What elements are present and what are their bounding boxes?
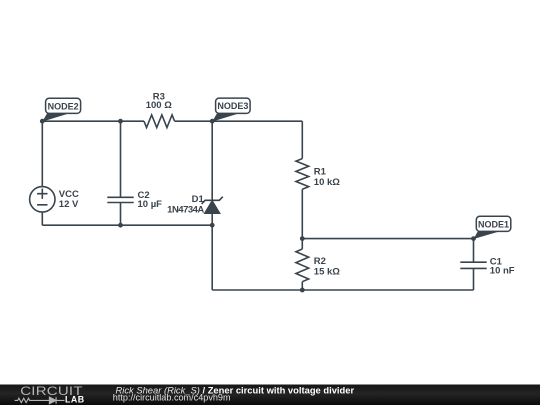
footer bar (0, 385, 540, 405)
wire left: NODE2 corner down to VCC top (41, 121, 43, 186)
svg-text:1N4734A: 1N4734A (167, 205, 204, 216)
footer title text (113, 384, 355, 402)
svg-text:R1: R1 (314, 166, 327, 177)
wire mid: R1/R2 junction to NODE1 corner (302, 238, 473, 240)
junction: NODE3 on top wire (210, 119, 215, 124)
zener diode D1 (202, 197, 223, 214)
capacitor C1 (460, 262, 486, 268)
svg-text:100 Ω: 100 Ω (146, 100, 172, 111)
node flag NODE2 (42, 98, 80, 121)
wire left: VCC bottom to bottom-left corner (41, 212, 43, 225)
resistor R2 (296, 249, 309, 282)
junction: R2 bottom on bottom wire (300, 288, 305, 293)
wire: D1 anode down through junction to bottom wire (211, 213, 213, 290)
wire top: NODE3 junction to top-right corner (212, 120, 302, 122)
svg-text:R2: R2 (314, 256, 326, 267)
voltage source VCC V1 (30, 187, 55, 212)
resistor R3 (144, 115, 175, 128)
svg-text:NODE2: NODE2 (48, 101, 79, 111)
svg-text:LAB: LAB (65, 394, 85, 404)
wire: R2 top lead (301, 239, 303, 249)
wire: C2 top lead (120, 121, 122, 197)
wire top: R3 right lead to NODE3 junction (175, 120, 213, 122)
node flag NODE3 (212, 98, 250, 122)
wire right: top corner down to R1 (301, 121, 303, 158)
svg-text:NODE3: NODE3 (217, 101, 248, 111)
svg-text:D1: D1 (192, 194, 205, 205)
svg-text:NODE1: NODE1 (478, 219, 509, 229)
svg-text:http://circuitlab.com/c4pvh9m: http://circuitlab.com/c4pvh9m (113, 393, 231, 403)
svg-text:12 V: 12 V (59, 199, 79, 210)
junction: C2 bottom (118, 223, 123, 228)
wire bottom-left: VCC to C2 to D1 (42, 224, 212, 226)
CircuitLab logo wordmark (20, 385, 84, 405)
junction: R1/R2 mid node (300, 236, 305, 241)
junction: D1 leg on bottom-left wire (210, 223, 215, 228)
wire: C2 bottom lead (120, 203, 122, 226)
CircuitLab logo resistor-diode icon (15, 397, 65, 404)
node flag NODE1 (474, 216, 511, 239)
wire bottom: D1 leg to R2 bottom to C1 bottom (212, 289, 473, 291)
junction: NODE1 corner (471, 236, 476, 241)
wire: NODE1 corner down to C1 (473, 239, 475, 263)
junction: NODE2 corner (40, 119, 45, 124)
wire: NODE3 down to zener D1 (211, 121, 213, 200)
wire: C1 bottom lead (473, 268, 475, 290)
wire: R2 bottom lead (301, 282, 303, 290)
wire top: NODE2 corner to R3 left lead (42, 120, 144, 122)
junction: C2 top on top wire (118, 119, 123, 124)
capacitor C2 (107, 197, 133, 202)
wire right: R1 bottom to mid junction (301, 189, 303, 238)
svg-text:10 nF: 10 nF (490, 266, 515, 277)
resistor R1 (296, 159, 309, 190)
svg-text:15 kΩ: 15 kΩ (314, 266, 340, 277)
svg-text:10 kΩ: 10 kΩ (314, 177, 340, 188)
svg-text:10 µF: 10 µF (138, 199, 163, 210)
